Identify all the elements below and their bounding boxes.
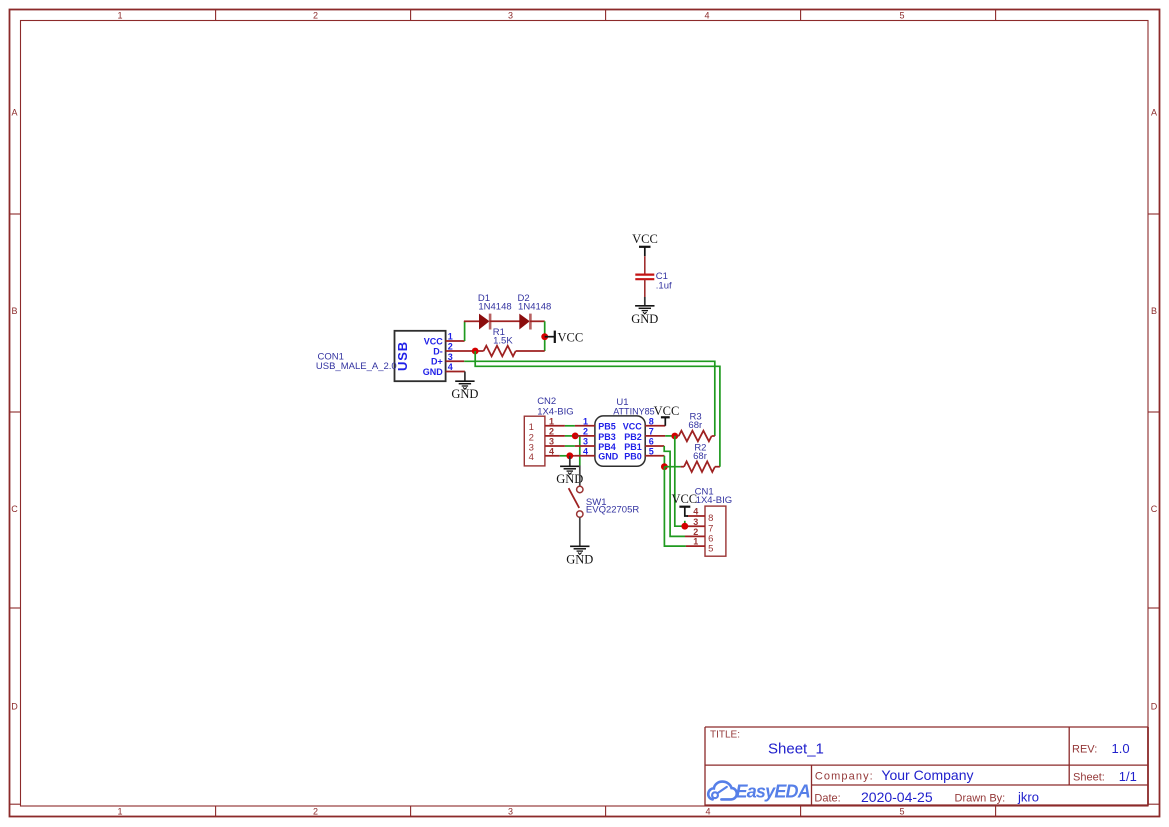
svg-text:1: 1 [117, 10, 122, 20]
wire red row4 to U1 [570, 455, 575, 457]
svg-text:2: 2 [313, 10, 318, 20]
wire green junction to R2 [664, 466, 680, 468]
svg-text:2: 2 [549, 427, 554, 437]
svg-text:ATTINY85: ATTINY85 [613, 406, 655, 417]
svg-text:GND: GND [631, 312, 658, 326]
R2 labels [693, 443, 707, 462]
svg-text:PB1: PB1 [624, 442, 642, 452]
power flag VCC at CN1 [671, 492, 697, 516]
capacitor C1 [635, 275, 654, 280]
svg-text:4: 4 [583, 446, 588, 456]
R1 labels [493, 327, 514, 347]
wire red C1 bottom [644, 279, 646, 297]
svg-text:Company:: Company: [815, 770, 874, 782]
svg-text:1N4148: 1N4148 [518, 302, 551, 313]
svg-text:A: A [11, 108, 17, 118]
svg-text:VCC: VCC [623, 422, 643, 432]
EasyEDA logo [708, 781, 810, 801]
wire green pin6 jog down to CN1 pin2 [664, 446, 685, 536]
wire pin2 D- stub [446, 350, 484, 352]
svg-text:5: 5 [649, 446, 654, 456]
CON1 labels [316, 352, 397, 372]
node junction pin7 [671, 433, 678, 440]
connector CN2 [524, 416, 565, 466]
svg-text:Date:: Date: [814, 793, 840, 805]
svg-text:jkro: jkro [1017, 789, 1039, 804]
SW1 labels [586, 497, 639, 515]
wire pin3 D+ stub [446, 360, 465, 362]
svg-text:68r: 68r [693, 451, 707, 462]
svg-text:1: 1 [583, 416, 588, 426]
svg-text:B: B [11, 306, 17, 316]
svg-text:TITLE:: TITLE: [710, 730, 740, 741]
svg-text:4: 4 [705, 807, 710, 817]
svg-text:D-: D- [433, 346, 443, 356]
wire green pin7 to R3 [665, 435, 675, 437]
resistor R2 [684, 461, 715, 472]
svg-text:.1uf: .1uf [656, 281, 672, 292]
wire green D+ long [464, 361, 715, 436]
wire black to gnd [644, 297, 646, 306]
svg-text:GND: GND [451, 387, 478, 401]
wire diode row right [530, 320, 545, 322]
switch SW1 [569, 466, 583, 547]
svg-text:1X4-BIG: 1X4-BIG [696, 495, 732, 506]
wire R3 right [712, 435, 715, 437]
wire pin1 VCC stub [446, 340, 465, 342]
IC U1 ATTINY85 [575, 416, 665, 466]
ground under USB [455, 381, 474, 389]
svg-text:3: 3 [508, 10, 513, 20]
svg-text:1.5K: 1.5K [493, 336, 513, 347]
node junction CN1 pin3 [681, 523, 688, 530]
wire green D- branch down [475, 351, 720, 467]
svg-text:3: 3 [693, 517, 698, 527]
svg-text:6: 6 [649, 437, 654, 447]
resistor R1 [484, 346, 516, 357]
wire green CN2-U1 row2 [565, 435, 575, 437]
svg-text:2: 2 [313, 807, 318, 817]
wire red to C1 top [644, 256, 646, 274]
svg-text:4: 4 [549, 446, 554, 456]
node junction R2 left [661, 463, 668, 470]
svg-text:PB3: PB3 [598, 432, 616, 442]
svg-text:5: 5 [899, 10, 904, 20]
wire R1 right [516, 350, 545, 352]
svg-text:2: 2 [693, 527, 698, 537]
svg-text:D: D [11, 702, 18, 712]
svg-text:5: 5 [899, 807, 904, 817]
D1 labels [478, 293, 512, 313]
svg-text:4: 4 [693, 507, 698, 517]
svg-text:68r: 68r [688, 420, 702, 431]
svg-text:Your Company: Your Company [881, 767, 973, 783]
D2 labels [518, 293, 552, 313]
node junction at VCC tap [541, 333, 548, 340]
wire black row4 down to gnd [569, 456, 571, 467]
wire green CN2 row4 [560, 455, 570, 457]
CN1 labels [695, 487, 733, 506]
svg-text:C: C [11, 504, 18, 514]
ground under SW1 [570, 546, 589, 554]
svg-text:A: A [1151, 108, 1157, 118]
node junction on D- [472, 348, 479, 355]
wire diode row left [464, 320, 480, 322]
svg-text:VCC: VCC [632, 232, 658, 246]
TITLE BLOCK [705, 727, 1149, 806]
wire green vertical to diode row [464, 321, 466, 341]
node junction row4 [566, 452, 573, 459]
CN2 labels [537, 396, 573, 417]
svg-text:C: C [1151, 504, 1158, 514]
svg-text:D+: D+ [431, 357, 443, 367]
svg-text:USB: USB [395, 341, 410, 371]
svg-text:EVQ22705R: EVQ22705R [586, 505, 639, 516]
svg-text:PB5: PB5 [598, 422, 616, 432]
svg-text:Drawn By:: Drawn By: [955, 793, 1006, 805]
diode D1 [479, 314, 490, 330]
wire green CN2-U1 row3 [565, 445, 575, 447]
svg-text:EasyEDA: EasyEDA [736, 781, 810, 801]
svg-text:1: 1 [117, 807, 122, 817]
svg-text:GND: GND [566, 552, 593, 566]
USB connector CON1 [395, 331, 453, 381]
connector CN1 [685, 506, 726, 556]
wire green down to CN1 pin1 [664, 467, 686, 546]
wire green pin7 down to CN1 pin3 [675, 436, 685, 526]
power flag VCC at U1 pin8 [654, 404, 680, 426]
wire black down to gnd [464, 372, 466, 382]
power flag VCC above C1 [632, 232, 658, 256]
wire green down to SW1 [579, 436, 581, 466]
svg-text:2: 2 [583, 427, 588, 437]
wire between diodes [490, 320, 520, 322]
wire green vertical D2 to R1 [544, 321, 546, 351]
svg-text:PB0: PB0 [624, 452, 642, 462]
wire green stub above CN1 pin3 [684, 521, 686, 526]
svg-text:7: 7 [649, 427, 654, 437]
svg-text:PB2: PB2 [624, 432, 642, 442]
svg-text:VCC: VCC [654, 404, 680, 418]
U1 labels [613, 397, 655, 417]
svg-text:GND: GND [423, 367, 444, 377]
wire green pin5 down to R2 junction [663, 456, 665, 467]
svg-text:VCC: VCC [671, 492, 697, 506]
ground under C1 [635, 306, 654, 314]
svg-text:1X4-BIG: 1X4-BIG [537, 406, 573, 417]
C1 labels [656, 271, 672, 292]
wire green CN2-U1 row1 [565, 425, 575, 427]
svg-text:3: 3 [583, 437, 588, 447]
diode D2 [519, 314, 530, 330]
svg-text:PB4: PB4 [598, 442, 616, 452]
svg-text:4: 4 [704, 10, 709, 20]
svg-text:B: B [1151, 306, 1157, 316]
svg-text:D: D [1151, 702, 1158, 712]
R3 labels [688, 412, 702, 432]
svg-text:1: 1 [693, 537, 698, 547]
svg-text:3: 3 [508, 807, 513, 817]
svg-text:Sheet_1: Sheet_1 [768, 741, 824, 758]
svg-text:4: 4 [529, 452, 534, 463]
resistor R3 [679, 431, 712, 442]
svg-text:VCC: VCC [558, 330, 584, 344]
svg-text:GND: GND [598, 452, 619, 462]
svg-text:1N4148: 1N4148 [478, 302, 511, 313]
svg-text:2020-04-25: 2020-04-25 [861, 789, 933, 805]
wire red to R3 [675, 435, 679, 437]
svg-text:1: 1 [549, 416, 554, 426]
node junction row2 [572, 433, 579, 440]
svg-text:1.0: 1.0 [1112, 741, 1130, 756]
ground under CN2 [560, 466, 579, 474]
svg-text:REV:: REV: [1072, 743, 1097, 755]
wire red to R2 [681, 466, 684, 468]
svg-text:5: 5 [708, 543, 713, 554]
svg-text:1/1: 1/1 [1119, 769, 1137, 784]
svg-text:3: 3 [549, 437, 554, 447]
svg-text:Sheet:: Sheet: [1073, 771, 1105, 783]
svg-text:USB_MALE_A_2.0: USB_MALE_A_2.0 [316, 361, 397, 372]
wire pin4 GND stub [446, 371, 465, 373]
wire R2 right [715, 466, 720, 468]
svg-text:VCC: VCC [424, 336, 444, 346]
power flag VCC (right of D2) [545, 330, 584, 344]
